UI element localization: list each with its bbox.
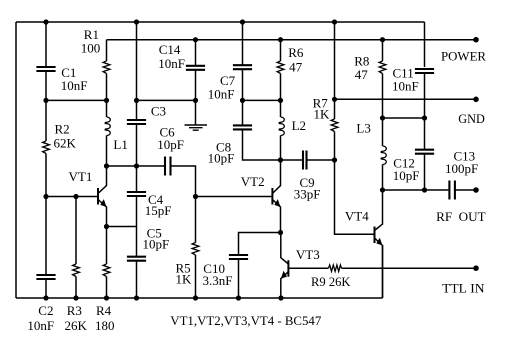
svg-text:VT1: VT1 [69,169,93,184]
svg-text:GND: GND [458,111,485,126]
capacitor C8 [233,125,252,129]
svg-text:R9 26K: R9 26K [311,274,351,289]
wire R6 to L2 [280,74,282,118]
capacitor C13 [449,181,455,200]
node junction at 280.5,160 [278,157,283,162]
node junction at 136.5,22 [134,19,139,24]
node junction at 382.5,39.7 [380,37,385,42]
node junction at 334.5,160 [332,157,337,162]
wire C5 to ground [136,261,138,298]
svg-text:47: 47 [289,60,303,75]
transistor VT1 [98,166,107,194]
transistor VT3 [281,233,289,265]
wire L2 node to C9 [281,159,303,161]
svg-text:VT1,VT2,VT3,VT4 - BC547: VT1,VT2,VT3,VT4 - BC547 [170,313,321,328]
svg-text:33pF: 33pF [294,186,321,201]
inductor L2 [279,117,284,136]
svg-text:VT2: VT2 [241,174,265,189]
capacitor C10 [229,255,248,259]
wire top rail to C7 [242,22,244,65]
wire mid rail C1-L1 [46,99,107,101]
wire top rail bend to C11 [424,22,426,67]
node junction at 106.5,100.4 [104,98,109,103]
node junction at 136.5,166 [134,163,139,168]
svg-text:L3: L3 [356,121,370,136]
resistor R2 [43,141,50,154]
svg-text:10pF: 10pF [143,237,170,252]
wire L3 to RF node [382,165,384,191]
capacitor C14 [195,40,197,101]
capacitor C11 [415,69,434,73]
svg-text:3.3nF: 3.3nF [203,273,233,288]
resistor R6 [280,40,282,61]
svg-text:R2: R2 [55,122,70,137]
resistor R9 [329,265,342,271]
svg-text:10nF: 10nF [208,86,235,101]
inductor L1 [105,117,110,136]
node RF OUT terminal [473,187,479,193]
wire C1 leads [45,22,47,141]
node junction at 238.5,298 [236,295,241,300]
svg-text:POWER: POWER [441,49,486,64]
capacitor C4 [127,192,146,196]
node junction at 195.5,196.5 [193,194,198,199]
svg-text:L1: L1 [113,137,127,152]
wire VT1 collector node to C6 [107,165,165,167]
svg-text:10nF: 10nF [158,56,185,71]
svg-text:10pF: 10pF [208,151,235,166]
node junction at 46,196.5 [43,194,48,199]
svg-text:10pF: 10pF [393,168,420,183]
node junction at 46,100.4 [43,98,48,103]
svg-text:R4: R4 [96,303,112,318]
node junction at 382.5,118 [380,115,385,120]
resistor R1 [106,40,108,61]
svg-text:R6: R6 [288,45,304,60]
node junction at 280.5,39.7 [278,37,283,42]
node junction at 280.5,232.5 [278,230,283,235]
resistor R5 [192,243,199,256]
node junction at 242.5,100.4 [240,98,245,103]
svg-text:VT4: VT4 [345,208,369,223]
node junction at 46,22 [43,19,48,24]
node junction at 46,298 [43,295,48,300]
transistor VT2 [272,160,280,194]
svg-text:100pF: 100pF [445,161,478,176]
svg-text:10nF: 10nF [392,79,419,94]
wire VT2 emitter node to C10 [239,233,281,256]
capacitor C12 [415,150,434,154]
ground [185,125,208,130]
node junction at 334.5,99.3 [332,97,337,102]
wire C4 to C5 [136,196,138,257]
wire C9 to R7 node [308,159,335,161]
wire C12 to RF node [424,154,426,190]
node junction at 106.5,166 [104,163,109,168]
capacitor C3 [127,120,146,124]
wire C14 node to ground symbol [195,100,197,124]
resistor R4 [103,264,110,277]
svg-text:100: 100 [81,41,101,56]
svg-text:R3: R3 [67,303,82,318]
wire R5 to ground [195,255,197,298]
wire C11 to L3 link [383,117,425,119]
wire GND rail [335,98,477,100]
svg-text:47: 47 [355,67,369,82]
inductor L3 [382,118,384,146]
svg-text:C2: C2 [38,303,53,318]
wire left border [15,22,17,298]
node TTL IN terminal [473,265,479,271]
capacitor C5 [127,257,146,261]
wire L2 to node [280,136,282,161]
svg-text:VT3: VT3 [296,247,320,262]
node junction at 136.5,100.4 [134,98,139,103]
svg-text:R8: R8 [354,53,369,68]
node junction at 76,298 [73,295,78,300]
svg-text:L2: L2 [292,118,306,133]
svg-text:180: 180 [95,318,115,333]
wire R8 to C11 node [382,74,384,119]
wire top rail to C3 [136,22,138,120]
svg-text:1K: 1K [314,107,331,122]
svg-text:10nF: 10nF [61,78,88,93]
svg-text:RF OUT: RF OUT [436,209,486,224]
wire L3 node to C13 [383,189,450,191]
wire VT1 base [46,196,98,198]
node junction at 382.5,190 [380,187,385,192]
capacitor C2 [36,275,55,279]
svg-text:10pF: 10pF [157,137,184,152]
wire C10 to ground [238,259,240,298]
node POWER terminal [473,37,479,43]
node junction at 424.5,190 [422,187,427,192]
node junction at 136.5,298 [134,295,139,300]
node junction at 195.5,100.4 [193,98,198,103]
capacitor C9 [303,151,307,170]
svg-text:1K: 1K [176,271,193,286]
svg-text:C3: C3 [151,103,166,118]
wire R3 leads [75,197,77,299]
wire ground rail [16,297,383,299]
wire R1 to L1 [106,74,108,118]
wire L1 to VT1 collector node [106,136,108,167]
wire VT1 emitter to R4 [106,227,108,265]
resistor R3 [73,264,80,277]
node junction at 242.5,22 [240,19,245,24]
wire C8 bend to L2 node [243,129,281,160]
wire VT1 emitter to C4 node [107,226,137,228]
wire VT3 base to R9 [288,267,328,269]
wire R9 to TTL IN terminal [342,267,477,269]
svg-text:26K: 26K [65,318,88,333]
wire mid rail C7-L2 [243,99,281,101]
node junction at 76,196.5 [73,194,78,199]
wire VT2 base node to R5 [195,197,197,243]
transistor VT4 [375,190,383,231]
wire R2 to C2 [45,154,47,299]
node junction at 106.5,226.5 [104,224,109,229]
capacitor C7 [233,65,252,69]
resistor R7 [331,119,338,132]
wire top rail to R7 [334,22,336,119]
node junction at 424.5,118 [422,115,427,120]
wire C6 to VT2 base bend [171,166,196,197]
wire VT2 base [196,196,273,198]
node junction at 280.5,100.4 [278,98,283,103]
svg-text:TTL IN: TTL IN [442,281,485,296]
wire top supply rail [16,21,425,23]
wire R7 to node [334,132,336,161]
node junction at 106.5,298 [104,295,109,300]
wire link node to C12 [424,118,426,150]
wire C11 to link node [424,73,426,118]
wire POWER rail [107,39,477,41]
node junction at 195.5,39.7 [193,37,198,42]
wire VT4 emitter to ground rail [382,246,384,299]
wire R7 node to VT4 base [335,160,375,234]
resistor R8 [382,40,384,61]
capacitor C1 [36,67,55,71]
node junction at 195.5,298 [193,295,198,300]
wire R4 to ground [106,277,108,299]
svg-text:15pF: 15pF [145,203,172,218]
wire C7 to C8 [242,69,244,125]
svg-text:62K: 62K [54,135,77,150]
node junction at 281,298 [278,295,283,300]
node GND terminal [473,97,479,103]
svg-text:10nF: 10nF [27,318,54,333]
wire mid rail C3-C14 [137,99,196,101]
capacitor C6 [165,157,171,176]
wire C13 to RF OUT terminal [455,189,477,191]
node junction at 334.5,22 [332,19,337,24]
wire C3 to C4 [136,124,138,192]
